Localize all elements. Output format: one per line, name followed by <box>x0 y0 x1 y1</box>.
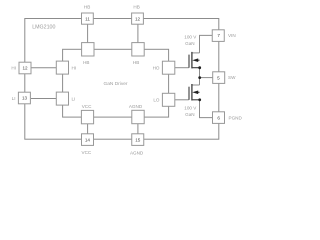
svg-text:LI: LI <box>72 96 76 101</box>
svg-text:6: 6 <box>217 115 220 120</box>
svg-text:11: 11 <box>85 16 90 21</box>
svg-text:GaN: GaN <box>185 112 194 117</box>
svg-text:15: 15 <box>135 137 141 142</box>
svg-text:PGND: PGND <box>229 115 243 120</box>
svg-text:LI: LI <box>12 96 16 101</box>
svg-text:HB: HB <box>133 60 139 65</box>
svg-text:12: 12 <box>22 66 28 71</box>
svg-text:12: 12 <box>135 16 141 21</box>
svg-text:HI: HI <box>72 65 77 70</box>
svg-text:LMG2100: LMG2100 <box>32 24 55 30</box>
svg-text:AGND: AGND <box>130 150 144 155</box>
svg-text:100 V: 100 V <box>184 34 197 39</box>
svg-text:LO: LO <box>153 97 160 102</box>
svg-text:VIN: VIN <box>228 33 236 38</box>
svg-text:SW: SW <box>228 75 236 80</box>
svg-text:13: 13 <box>22 96 28 101</box>
svg-text:GaN Driver: GaN Driver <box>104 81 128 87</box>
svg-text:VCC: VCC <box>82 104 92 109</box>
svg-text:HI: HI <box>11 65 16 70</box>
svg-text:GaN: GaN <box>185 41 194 46</box>
svg-text:HB: HB <box>83 60 89 65</box>
svg-text:7: 7 <box>217 33 220 38</box>
svg-text:14: 14 <box>85 137 91 142</box>
svg-text:HB: HB <box>84 4 90 9</box>
svg-text:100 V: 100 V <box>184 106 197 111</box>
svg-text:HB: HB <box>133 4 139 9</box>
svg-text:5: 5 <box>217 75 220 80</box>
svg-text:HO: HO <box>153 65 160 70</box>
svg-text:VCC: VCC <box>82 150 92 155</box>
svg-text:AGND: AGND <box>129 104 143 109</box>
